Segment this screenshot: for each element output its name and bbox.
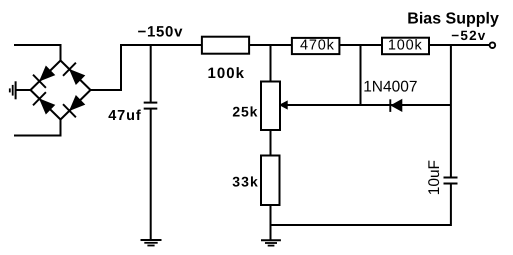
resistor 100k (series) [202, 37, 249, 54]
diode 1N4007 cathode bar [389, 99, 391, 112]
wire capacitor 10uF to diode line and bus [450, 45, 452, 177]
wire capacitor 47uf to ground [150, 109, 152, 239]
bridge rectifier edge bottom-right [61, 90, 91, 120]
bridge diode bottom-right [63, 104, 76, 117]
resistor 470k [292, 38, 340, 54]
wire bus down to capacitor 47uf [150, 45, 152, 102]
earth ground left [15, 81, 17, 99]
ground below 47uf [141, 239, 162, 241]
wire earth to bridge left corner [16, 89, 31, 91]
resistor 100k (second) [382, 38, 429, 55]
svg-text:47uf: 47uf [108, 108, 141, 124]
bridge rectifier edge top-left [31, 61, 61, 91]
svg-text:100k: 100k [388, 38, 423, 54]
ground below 33k [261, 239, 281, 241]
diode 1N4007 triangle [391, 100, 402, 112]
capacitor 47uf [144, 102, 158, 104]
svg-text:10uF: 10uF [426, 160, 443, 195]
wire AC input top [14, 45, 61, 61]
svg-text:1N4007: 1N4007 [363, 79, 417, 96]
wire bus junction down to wiper line [360, 45, 362, 105]
wire potentiometer to resistor 33k [270, 130, 272, 156]
wire AC input bottom [14, 120, 61, 136]
bridge diode bottom-left [33, 92, 46, 105]
output terminal circle [490, 42, 496, 48]
svg-text:470k: 470k [300, 38, 335, 54]
potentiometer 25k body [261, 82, 280, 131]
bridge diode top-right [63, 63, 76, 76]
wire bus R 470k to R 100k-2 [340, 44, 383, 46]
bridge rectifier edge bottom-left [31, 90, 61, 120]
resistor 33k [261, 156, 280, 206]
svg-text:33k: 33k [232, 174, 259, 190]
svg-text:100k: 100k [208, 65, 246, 82]
wire bus to output terminal [430, 44, 490, 46]
svg-text:Bias Supply: Bias Supply [407, 11, 499, 28]
wire bus junction down to potentiometer [270, 45, 272, 82]
bridge rectifier edge top-right [61, 61, 91, 91]
svg-text:−52v: −52v [451, 28, 486, 43]
wire 33k to ground junction [270, 205, 272, 240]
svg-text:−150v: −150v [138, 23, 184, 40]
svg-text:25k: 25k [232, 103, 258, 119]
bridge diode top-left [33, 75, 46, 88]
wire bus R 100k to R 470k [249, 44, 292, 46]
wire bridge output to -150v bus [91, 45, 203, 90]
wire bottom return [271, 184, 451, 225]
wire wiper line [283, 104, 451, 106]
capacitor 10uF [444, 177, 458, 179]
potentiometer wiper arrow [280, 101, 287, 109]
